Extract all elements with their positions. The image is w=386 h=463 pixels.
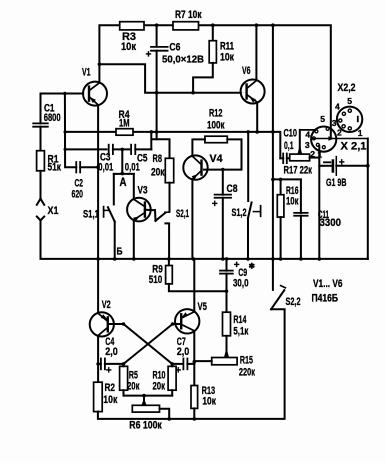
svg-text:5: 5 [320, 114, 325, 124]
svg-text:3300: 3300 [320, 217, 342, 229]
svg-text:R8: R8 [153, 153, 163, 165]
svg-text:220к: 220к [239, 366, 255, 378]
svg-text:20к: 20к [153, 380, 166, 392]
svg-text:R2: R2 [105, 382, 116, 394]
svg-text:30,0: 30,0 [233, 278, 249, 290]
svg-text:10к: 10к [202, 395, 216, 407]
svg-text:51к: 51к [48, 162, 62, 174]
svg-text:S1,1: S1,1 [83, 209, 99, 221]
svg-text:0,01: 0,01 [98, 161, 113, 173]
svg-text:V5: V5 [198, 301, 208, 313]
svg-text:10к: 10к [220, 52, 234, 64]
svg-text:R14: R14 [233, 314, 247, 326]
svg-text:V6: V6 [242, 65, 251, 77]
svg-text:0,01: 0,01 [125, 161, 140, 173]
svg-text:П416Б: П416Б [312, 292, 339, 304]
svg-text:10к: 10к [286, 195, 299, 207]
svg-text:2: 2 [337, 127, 342, 137]
svg-text:C8: C8 [227, 183, 238, 195]
svg-text:V2: V2 [102, 299, 111, 311]
svg-text:3: 3 [305, 140, 310, 150]
svg-text:1: 1 [317, 150, 322, 160]
svg-text:0,1: 0,1 [284, 140, 294, 152]
svg-text:2,0: 2,0 [105, 346, 118, 358]
svg-text:10к: 10к [121, 41, 136, 53]
svg-text:S2,1: S2,1 [176, 208, 189, 220]
svg-text:4: 4 [335, 102, 340, 112]
svg-text:1М: 1М [119, 117, 130, 129]
svg-text:20к: 20к [127, 380, 140, 392]
svg-text:X1: X1 [48, 205, 59, 217]
svg-text:620: 620 [72, 189, 84, 201]
svg-text:1: 1 [358, 128, 363, 138]
svg-text:G1 9В: G1 9В [326, 177, 347, 189]
svg-text:R7 10к: R7 10к [175, 9, 202, 21]
svg-text:+: + [234, 260, 240, 271]
svg-text:R15: R15 [240, 354, 253, 366]
svg-text:Б: Б [117, 246, 123, 257]
svg-text:6800: 6800 [44, 112, 61, 124]
svg-text:V3: V3 [138, 184, 148, 196]
svg-text:S2,2: S2,2 [286, 296, 301, 308]
svg-text:+: + [146, 50, 152, 61]
svg-text:5: 5 [347, 96, 352, 106]
svg-text:5,1к: 5,1к [233, 326, 248, 338]
svg-text:+: + [175, 366, 181, 377]
svg-text:X 2,1: X 2,1 [341, 141, 367, 153]
svg-text:2,0: 2,0 [177, 346, 190, 358]
svg-text:V1: V1 [82, 67, 91, 79]
svg-text:4: 4 [305, 130, 310, 140]
svg-text:X2,2: X2,2 [338, 82, 356, 94]
svg-text:C6: C6 [169, 41, 180, 53]
svg-text:R17 22к: R17 22к [284, 164, 313, 176]
svg-text:+: + [339, 158, 345, 169]
svg-text:A: A [120, 177, 127, 189]
svg-text:10к: 10к [103, 394, 117, 406]
svg-text:V1... V6: V1... V6 [313, 278, 343, 290]
svg-text:R12: R12 [209, 107, 223, 119]
svg-text:50,0×12В: 50,0×12В [162, 54, 204, 65]
svg-text:510: 510 [149, 274, 163, 286]
svg-text:2: 2 [310, 149, 315, 159]
svg-text:V4: V4 [210, 153, 224, 165]
svg-text:20к: 20к [151, 166, 165, 178]
svg-text:C10: C10 [284, 128, 298, 140]
svg-text:R6 100к: R6 100к [129, 419, 162, 431]
svg-text:+: + [106, 366, 112, 377]
svg-text:✱: ✱ [249, 262, 255, 271]
svg-text:+: + [212, 199, 218, 210]
svg-text:100к: 100к [207, 119, 225, 131]
svg-text:S1,2: S1,2 [232, 207, 247, 219]
